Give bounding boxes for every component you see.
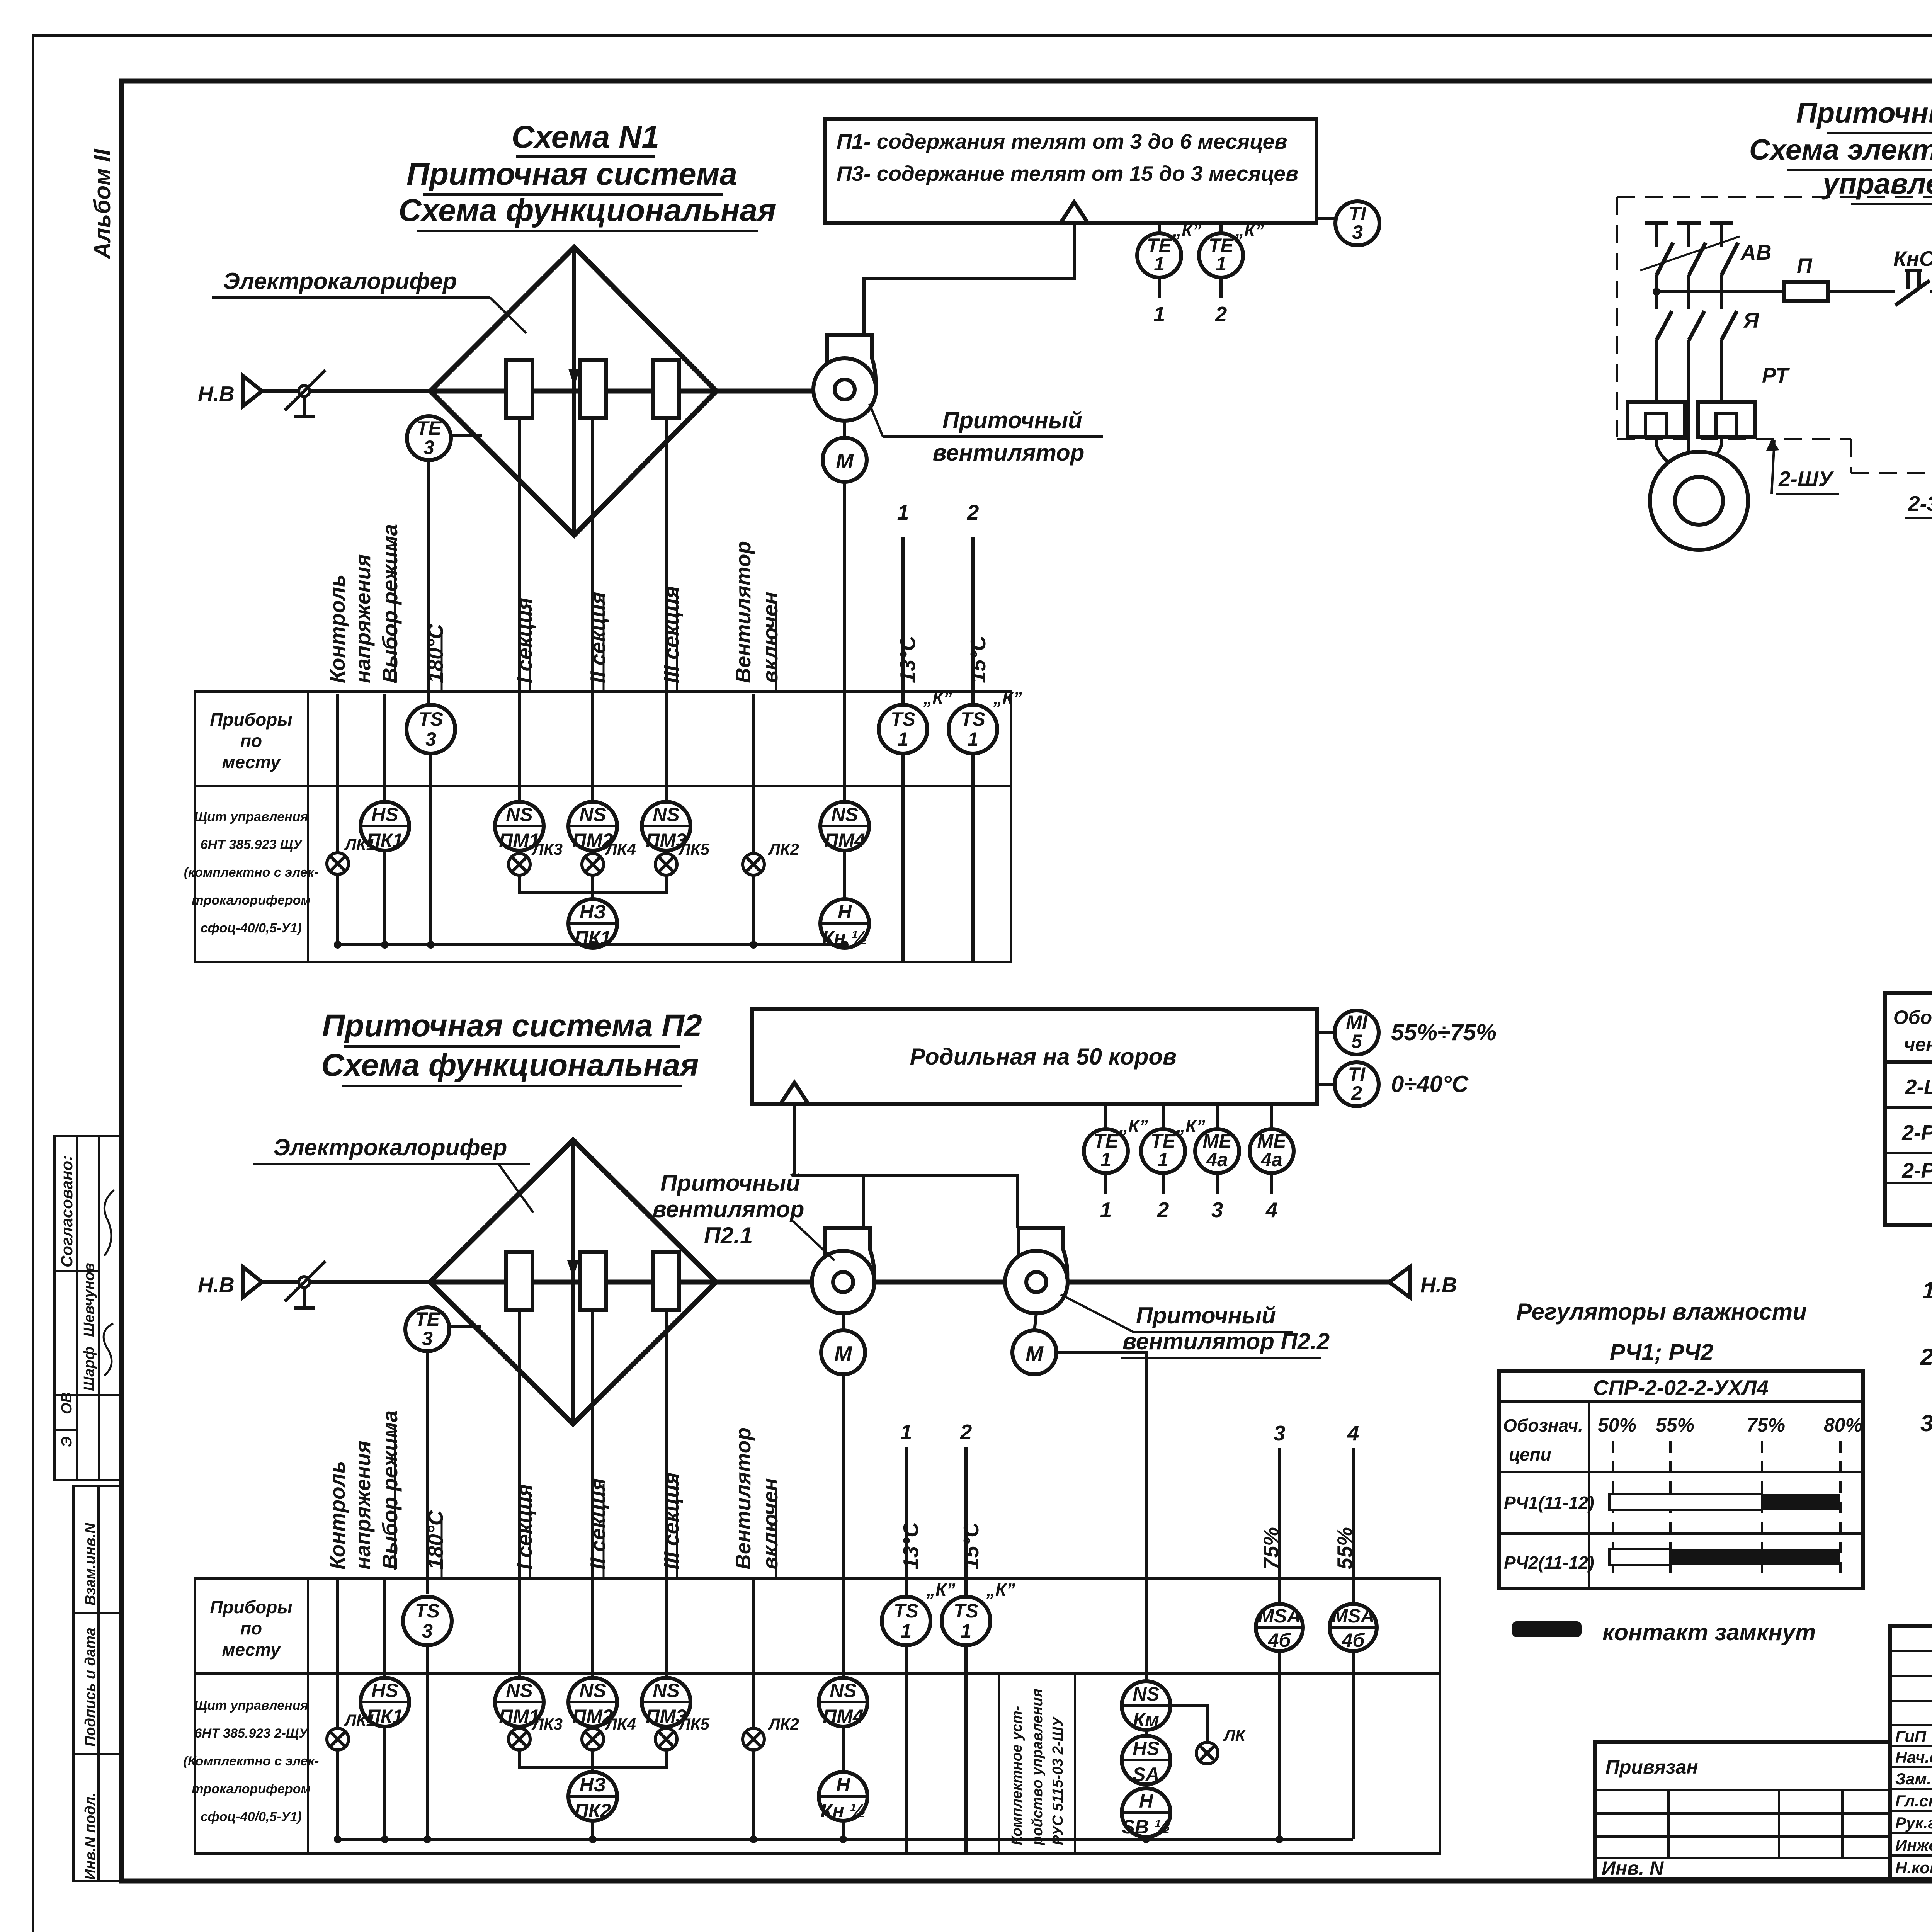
svg-text:Инв. N: Инв. N [1602,1857,1664,1879]
svg-text:Комплектное уст-: Комплектное уст- [1009,1706,1025,1845]
supply air triangle on box [1060,202,1088,223]
svg-text:ЛК3: ЛК3 [531,840,563,858]
svg-text:Схема N1: Схема N1 [512,119,659,155]
svg-text:ЛК1: ЛК1 [344,835,375,854]
duct inlet arrow H.B N1 [198,376,430,406]
device NS PK2 P2 [568,1772,617,1821]
svg-text:SВ ½: SВ ½ [1122,1816,1170,1838]
svg-text:4: 4 [1347,1421,1359,1445]
device NS PM1 N1 [495,802,544,851]
svg-text:КнС: КнС [1893,247,1932,270]
svg-text:III секция: III секция [659,586,683,683]
device TS3 N1 [406,705,455,753]
svg-text:месту: месту [222,752,281,772]
svg-text:3: 3 [422,1620,433,1642]
svg-text:I секция: I секция [512,1484,536,1570]
svg-text:13°С: 13°С [899,1522,923,1570]
schema P2 title [321,1008,702,1086]
svg-text:„К”: „К” [1172,220,1201,240]
sensor TE1 k1 [1137,220,1201,326]
svg-text:1: 1 [968,728,978,750]
sensor TE3 N1 [407,416,482,460]
svg-text:Электрокалорифер: Электрокалорифер [274,1134,507,1160]
thermal relay RT heater box1 [1628,402,1685,437]
device NS PM3 P2 [642,1678,690,1727]
device NS PM3 N1 [642,802,690,851]
svg-text:50%: 50% [1598,1414,1636,1436]
svg-text:Выбор режима: Выбор режима [378,1410,402,1570]
sensor TE1 k2 [1199,220,1264,326]
svg-text:Альбом II: Альбом II [89,148,115,260]
room box P1/P3 [825,119,1316,223]
device HS PK1 N1 [361,802,409,851]
damper P2 [285,1261,325,1308]
device TS1 k1 N1 [879,688,952,753]
svg-text:вентилятор: вентилятор [933,440,1085,466]
svg-text:Схема электрическая принципи: Схема электрическая принципиальная [1749,133,1932,166]
lamp group bus P2 [519,1750,666,1768]
svg-text:NS: NS [830,1680,856,1701]
svg-text:напряжения: напряжения [351,554,375,683]
device HS SA P2 [1122,1730,1170,1785]
panel table P2 [184,1578,1440,1854]
svg-text:МI: МI [1346,1012,1368,1033]
lamp LK5 P2 [655,1715,710,1750]
svg-text:(Комплектно с элек-: (Комплектно с элек- [184,1754,319,1769]
duct between fans P2 [874,1280,1005,1285]
heater section II N1 [580,360,606,418]
svg-text:РУС 5115-03 2-ШУ: РУС 5115-03 2-ШУ [1050,1716,1066,1845]
svg-text:РЧ1(11-12): РЧ1(11-12) [1504,1493,1594,1513]
svg-text:Подпись и дата: Подпись и дата [82,1628,99,1747]
svg-text:6НТ 385.923 2-ЩУ: 6НТ 385.923 2-ЩУ [195,1726,309,1741]
svg-text:по: по [240,1618,262,1638]
left margin inventory stamp [73,1486,122,1881]
device TS3 P2 [403,1597,452,1645]
lamp LK2 N1 [743,694,799,945]
breaker tie bar [1640,236,1740,270]
lamp LK2 P2 [743,1580,799,1839]
svg-text:контакт замкнут: контакт замкнут [1602,1619,1816,1645]
svg-text:55%: 55% [1333,1527,1357,1570]
svg-text:1: 1 [1158,1149,1168,1170]
device NS PM1 P2 [495,1678,544,1727]
svg-text:1: 1 [898,728,908,750]
room box родильная [752,1009,1317,1104]
duct through diamond N1 [430,389,716,394]
electrical schema title [1749,97,1932,204]
svg-text:Родильная на 50 коров: Родильная на 50 коров [910,1044,1177,1070]
svg-text:Н: Н [836,1774,850,1796]
svg-text:ЛК4: ЛК4 [605,840,636,858]
svg-text:Км: Км [1133,1709,1159,1731]
svg-text:НS: НS [371,1680,398,1701]
svg-text:вентилятор П2.2: вентилятор П2.2 [1122,1328,1330,1354]
svg-text:ЛК: ЛК [1223,1726,1247,1744]
svg-text:Контроль: Контроль [325,575,349,684]
svg-text:180°С: 180°С [423,1510,447,1570]
sensor ME4a n4 [1250,1104,1294,1222]
signature grid [1890,1626,1932,1879]
left margin approval stamp [54,1136,122,1480]
svg-text:Приточный: Приточный [942,407,1082,433]
svg-text:3.: 3. [1920,1410,1932,1436]
svg-text:напряжения: напряжения [351,1440,375,1570]
signal line 2 N1 [967,500,979,962]
lamp LK3 N1 [509,840,563,875]
svg-text:2: 2 [960,1420,972,1444]
sensor MI5 [1317,1010,1497,1054]
svg-text:55%÷75%: 55%÷75% [1391,1019,1497,1045]
lamp group bus N1 [519,875,666,893]
svg-text:3: 3 [1211,1198,1223,1222]
svg-text:ЛК2: ЛК2 [768,1715,799,1733]
svg-text:0÷40°С: 0÷40°С [1391,1071,1469,1097]
wires mode select N1 [336,694,339,853]
svg-text:1: 1 [901,1620,912,1642]
svg-text:П1- содержания телят от 3 до: П1- содержания телят от 3 до 6 месяцев [837,129,1287,153]
svg-text:М: М [834,1342,852,1366]
svg-text:1: 1 [1216,253,1226,275]
damper N1 [285,370,325,417]
heater diamond N1 [430,247,716,535]
svg-text:2-ШУ: 2-ШУ [1905,1075,1932,1099]
signal line 1 P2 [900,1420,912,1854]
sensor TE1 k2 P2 [1141,1104,1205,1222]
svg-text:М: М [836,449,854,473]
svg-text:ТЕ: ТЕ [415,1308,440,1330]
svg-text:ПМ4: ПМ4 [823,1706,863,1727]
device MSA 4b n1 [1256,1604,1303,1651]
device NS PM4 P2 [819,1678,867,1727]
signal line 4 P2 [1347,1421,1359,1603]
supply duct risers P2 [794,1104,1017,1228]
wire M to panel N1 [843,482,846,802]
svg-text:NS: NS [653,804,679,825]
sensor ME4a n3 [1195,1104,1239,1222]
motor M P2.1 [821,1313,865,1374]
svg-text:ТI: ТI [1348,1063,1366,1085]
svg-text:Щит управления: Щит управления [194,810,308,824]
svg-text:2: 2 [1351,1082,1362,1104]
svg-text:75%: 75% [1259,1527,1283,1570]
label приточный вентилятор P2.1 [653,1170,835,1260]
svg-text:13°С: 13°С [896,635,920,683]
svg-text:2.: 2. [1920,1344,1932,1370]
svg-text:Рук.гр.: Рук.гр. [1895,1814,1932,1832]
designation table [1885,993,1932,1225]
heater section III N1 [653,360,679,418]
svg-text:Шевчунов: Шевчунов [81,1263,97,1337]
schema N1 title [398,119,776,231]
device HS PK1 P2 [361,1678,409,1727]
svg-text:Нач.отд.: Нач.отд. [1895,1748,1932,1766]
wire TE3 to panel [427,460,430,707]
svg-text:3: 3 [1352,221,1363,243]
svg-text:П3- содержание телят от 15 д: П3- содержание телят от 15 до 3 месяцев [837,162,1298,185]
lamp LK5 N1 [655,840,710,875]
motor M P2.2 [1012,1313,1146,1681]
svg-text:Приточный: Приточный [1136,1303,1276,1328]
fan N1 [813,335,876,421]
svg-text:Вентилятор: Вентилятор [731,541,755,683]
svg-text:Контроль: Контроль [325,1461,349,1570]
svg-text:2-ШУ: 2-ШУ [1778,467,1834,491]
svg-text:2: 2 [1157,1198,1169,1222]
svg-text:трокалорифером: трокалорифером [192,1782,310,1796]
svg-text:Выбор режима: Выбор режима [378,524,402,683]
duct diamond to fan N1 [716,389,815,394]
svg-text:ЛК2: ЛК2 [768,840,799,858]
duct fan P2.2 to outlet [1068,1280,1389,1285]
svg-text:Регуляторы влажности: Регуляторы влажности [1516,1299,1807,1325]
breaker pole A phase1 [1645,223,1673,402]
svg-text:Схема функциональная: Схема функциональная [398,193,776,228]
svg-text:I секция: I секция [512,598,536,683]
svg-text:2: 2 [1215,302,1227,326]
control device column P2 [999,1673,1075,1854]
svg-text:Взам.инв.N: Взам.инв.N [82,1522,99,1605]
lamp LK4 N1 [582,840,636,875]
device NZ PK1 N1 [568,899,617,949]
svg-text:NS: NS [506,1680,532,1701]
wire TS3 down N1 [429,753,432,945]
svg-text:3: 3 [425,728,436,750]
breaker pole A phase3 [1710,223,1738,402]
signal line 3 P2 [1274,1421,1286,1603]
fan P2.2 [1005,1228,1068,1313]
svg-text:1: 1 [1100,1198,1112,1222]
svg-text:цепи: цепи [1509,1444,1551,1464]
svg-text:NS: NS [653,1680,679,1701]
svg-text:ЛК1: ЛК1 [344,1711,375,1729]
svg-text:трокалорифером: трокалорифером [192,893,310,908]
label электрокалорифер P2 [253,1134,533,1213]
device NS PM4 N1 [820,802,869,851]
humidity regulators title [1516,1299,1807,1365]
lamp LK1 P2 [327,1711,375,1839]
svg-text:3: 3 [1274,1421,1286,1445]
motor wires [1656,437,1721,466]
svg-text:НЗ: НЗ [580,1774,606,1796]
svg-text:Привязан: Привязан [1605,1756,1698,1778]
svg-text:ЛК5: ЛК5 [678,840,710,858]
svg-text:ТS: ТS [954,1600,978,1622]
svg-text:2-РЧ1: 2-РЧ1 [1901,1121,1932,1145]
svg-text:„К”: „К” [986,1580,1015,1600]
lamp LK3 P2 [509,1715,563,1750]
left attachment table [1595,1742,1890,1879]
svg-text:„К”: „К” [1119,1116,1148,1136]
signal line 2 P2 [960,1420,972,1854]
svg-text:SА: SА [1133,1764,1159,1785]
wire sections to panel [518,418,521,802]
device H Kn N1 [820,899,869,949]
svg-text:1: 1 [1100,1149,1111,1170]
svg-text:NS: NS [1133,1683,1159,1705]
svg-text:МSА: МSА [1332,1605,1374,1627]
svg-text:Зам.н.о.: Зам.н.о. [1895,1770,1932,1788]
sensor TE3 P2 [405,1307,481,1351]
svg-text:РЧ1; РЧ2: РЧ1; РЧ2 [1610,1339,1713,1365]
svg-text:Электрокалорифер: Электрокалорифер [223,268,457,294]
svg-text:ройство управления: ройство управления [1029,1689,1046,1845]
svg-text:ТЕ: ТЕ [417,417,442,439]
wires sections to panel P2 [518,1310,521,1678]
svg-text:1.: 1. [1922,1277,1932,1303]
sensor TI2 [1317,1062,1469,1106]
svg-text:180°С: 180°С [423,623,447,683]
svg-text:НЗ: НЗ [580,901,606,923]
svg-text:NS: NS [831,804,858,825]
svg-text:ГиП: ГиП [1895,1727,1927,1745]
thermal relay RT heater box2 [1698,402,1755,437]
rotated wire labels N1 [325,524,990,692]
svg-text:4: 4 [1265,1198,1278,1222]
svg-text:П: П [1797,253,1813,277]
panel bus P2 [334,1651,1353,1843]
svg-text:4а: 4а [1206,1149,1228,1170]
svg-text:2: 2 [967,500,979,524]
control tap wire [1653,288,1784,296]
svg-text:„К”: „К” [993,688,1022,708]
svg-text:чение: чение [1904,1034,1932,1055]
device MSA 4b n2 [1330,1604,1377,1651]
svg-text:ЛК4: ЛК4 [605,1715,636,1733]
svg-text:Н.В: Н.В [198,1273,235,1297]
svg-text:1: 1 [900,1420,912,1444]
device NS PM2 N1 [568,802,617,851]
svg-text:15°С: 15°С [966,635,990,683]
svg-text:2-301: 2-301 [1908,492,1932,515]
wire TE3 to panel P2 [426,1351,429,1594]
svg-text:Приточный: Приточный [660,1170,800,1196]
panel table N1 [184,692,1011,962]
svg-text:NS: NS [579,804,606,825]
heater section I P2 [506,1252,532,1310]
fan outlet riser N1 [864,223,1074,335]
svg-text:Обозна-: Обозна- [1893,1007,1932,1028]
svg-text:Приточная система П2: Приточная система П2 [322,1008,702,1043]
svg-text:ПМ4: ПМ4 [824,830,865,851]
panel bus N1 [334,850,849,949]
legend closed contact [1512,1619,1816,1645]
device NS PM2 P2 [568,1678,617,1727]
breaker pole A phase2 [1677,223,1706,453]
dashed enclosure 2-SHU [1617,197,1932,473]
label 2-SHU [1766,439,1839,494]
svg-text:ЛК3: ЛК3 [531,1715,563,1733]
svg-text:1: 1 [1153,302,1165,326]
svg-text:„К”: „К” [923,688,952,708]
fan P2.1 [812,1228,874,1313]
svg-text:1: 1 [1154,253,1165,275]
svg-text:Шарф: Шарф [81,1347,97,1391]
svg-text:1: 1 [961,1620,971,1642]
svg-text:управления и регулирования: управления и регулирования [1821,167,1932,200]
svg-text:Приточная система: Приточная система [406,156,737,192]
label электрокалорифер N1 [212,268,526,333]
svg-text:НS: НS [371,804,398,825]
svg-text:4б: 4б [1342,1629,1366,1651]
svg-text:Щит управления: Щит управления [194,1698,308,1713]
humidity regulators table [1499,1371,1863,1588]
device TS1 k1 P2 [882,1580,955,1645]
wire TS3 down P2 [426,1645,429,1839]
duct diamond to fan P2.1 [716,1280,813,1285]
svg-text:4а: 4а [1260,1149,1282,1170]
svg-text:Вентилятор: Вентилятор [731,1427,755,1570]
svg-text:III секция: III секция [659,1472,683,1570]
svg-text:НS: НS [1133,1738,1159,1759]
label приточный вентилятор P2.2 [1061,1294,1330,1358]
heater diamond P2 [430,1140,716,1424]
svg-text:Н.В: Н.В [198,382,235,406]
svg-text:3: 3 [422,1328,433,1349]
svg-text:ТS: ТS [418,708,443,730]
svg-text:М: М [1026,1342,1044,1366]
svg-text:„К”: „К” [1176,1116,1205,1136]
bus 2-301 [1905,355,1932,955]
svg-text:Согласовано:: Согласовано: [58,1155,76,1267]
svg-text:МSА: МSА [1258,1605,1301,1627]
svg-text:5: 5 [1351,1031,1362,1052]
svg-text:Инв.N подл.: Инв.N подл. [82,1793,99,1880]
svg-text:„К”: „К” [926,1580,955,1600]
device TS1 k2 N1 [949,688,1022,753]
duct inlet arrow H.B P2 [198,1267,430,1297]
duct outlet arrow H.B right [1389,1267,1457,1297]
svg-text:II секция: II секция [586,1478,610,1570]
svg-text:Приборы: Приборы [210,709,292,730]
svg-text:Обознач.: Обознач. [1503,1415,1583,1435]
lamp LK4 P2 [582,1715,636,1750]
svg-text:NS: NS [506,804,532,825]
svg-text:„К”: „К” [1235,220,1264,240]
sensor TI3 [1316,201,1379,245]
svg-text:(комплектно с элек-: (комплектно с элек- [184,865,318,880]
svg-text:Гл.спец.: Гл.спец. [1895,1792,1932,1810]
duct through diamond P2 [430,1280,716,1285]
svg-text:75%: 75% [1747,1414,1785,1436]
device NS Km P2 [1122,1681,1170,1731]
lamp LK1 N1 [327,835,375,945]
svg-text:Н: Н [838,901,852,923]
svg-text:15°С: 15°С [959,1522,983,1570]
motor M N1 [823,421,867,482]
svg-text:80%: 80% [1824,1414,1862,1436]
svg-text:Я: Я [1743,308,1760,332]
svg-text:РТ: РТ [1762,363,1790,387]
svg-text:включен: включен [758,592,782,683]
device H Kn P2 [819,1726,867,1839]
svg-text:ТS: ТS [891,708,915,730]
svg-text:6НТ 385.923 ЩУ: 6НТ 385.923 ЩУ [201,837,303,852]
svg-text:Н.контр.: Н.контр. [1895,1859,1932,1877]
rotated wire labels P2 [325,1410,1357,1579]
svg-text:Н.В: Н.В [1420,1273,1457,1297]
svg-text:ПК2: ПК2 [575,1800,611,1821]
svg-text:Схема функциональная: Схема функциональная [321,1048,699,1083]
svg-text:1: 1 [897,500,909,524]
device TS1 k2 P2 [942,1580,1015,1645]
svg-text:II секция: II секция [586,592,610,683]
svg-text:включен: включен [758,1478,782,1570]
heater section III P2 [653,1252,679,1310]
fuse P left [1784,253,1895,301]
svg-text:Н: Н [1139,1790,1153,1812]
svg-text:вентилятор: вентилятор [653,1196,804,1222]
